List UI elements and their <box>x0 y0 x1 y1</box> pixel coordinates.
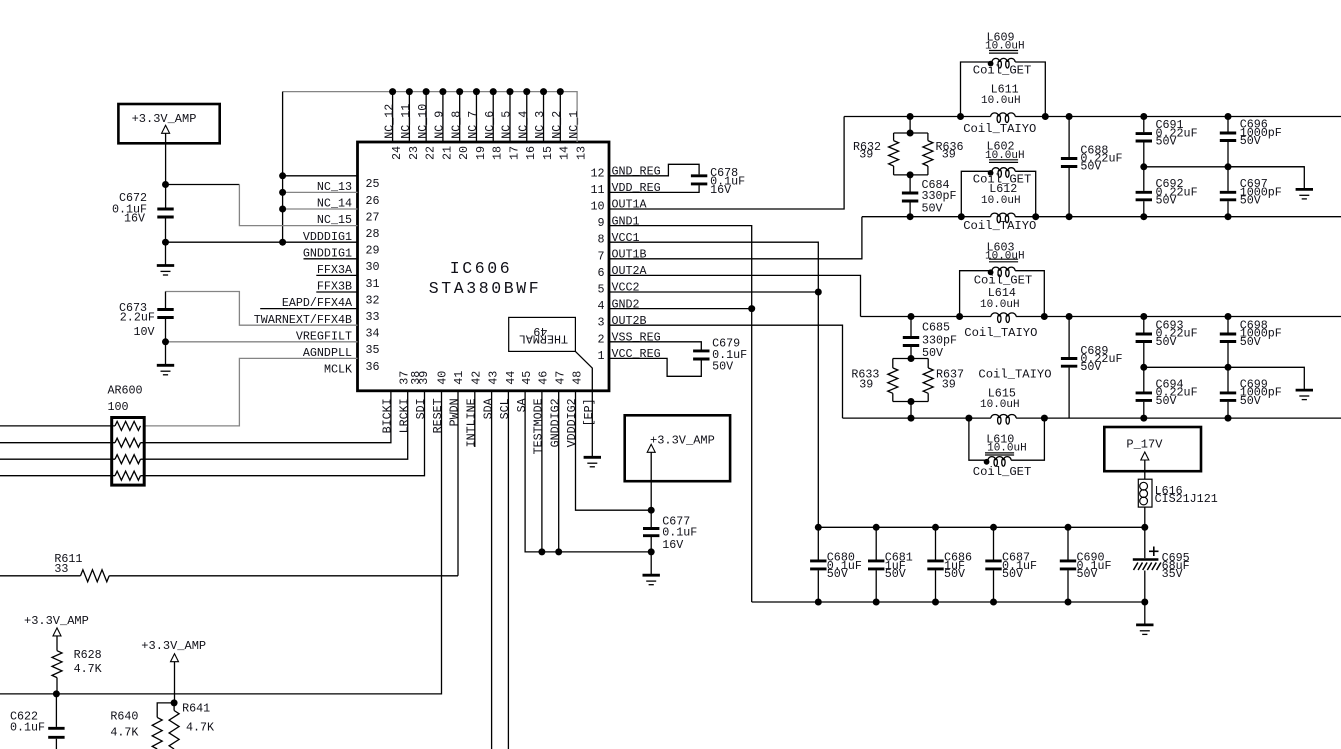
gnd mid wire block2 <box>1144 367 1305 390</box>
ground under C672 <box>157 264 174 267</box>
inductor L612 10.0uH Coil_TAIYO <box>991 213 1016 217</box>
wire to R640/R641 <box>174 662 176 703</box>
svg-text:48: 48 <box>570 371 584 385</box>
ground block2 <box>1296 389 1313 392</box>
svg-text:3: 3 <box>597 316 604 330</box>
AR600 resistor element 3 wire <box>0 458 115 460</box>
svg-text:2.2uF: 2.2uF <box>120 310 155 324</box>
svg-text:33: 33 <box>54 562 68 576</box>
svg-text:17: 17 <box>507 146 521 160</box>
inductor L603 10.0uH Coil_GET loop <box>960 271 992 317</box>
rail OUT1A net <box>844 116 991 118</box>
wire AR600 r3 to LRCKI <box>141 391 408 459</box>
svg-text:+3.3V_AMP: +3.3V_AMP <box>132 112 197 126</box>
svg-text:Coil_TAIYO: Coil_TAIYO <box>963 219 1036 233</box>
pin 12 GND_REG wire to C678 <box>609 164 699 176</box>
pin 41 PWDN wire + resistor R611 33 <box>457 391 459 576</box>
wire C677 to ground <box>650 537 652 575</box>
svg-text:+3.3V_AMP: +3.3V_AMP <box>141 639 206 653</box>
ground under EP <box>584 456 601 459</box>
svg-text:7: 7 <box>597 249 604 263</box>
cap bank top rail (VCC) <box>818 526 1145 528</box>
svg-text:TESTMODE: TESTMODE <box>532 398 546 454</box>
svg-text:Coil_GET: Coil_GET <box>973 465 1032 479</box>
power triangle <box>647 444 655 452</box>
capacitor C698 1000pF 50V / C699 1000pF 50V <box>1225 313 1232 320</box>
svg-text:NC_3: NC_3 <box>533 111 547 139</box>
wire P_17V to L616 <box>1144 460 1146 479</box>
svg-text:39: 39 <box>942 147 956 161</box>
pin 3 OUT2B wire to rail4 <box>609 325 843 418</box>
svg-text:CIS21J121: CIS21J121 <box>1155 492 1218 506</box>
node gnd junction <box>648 548 655 555</box>
resistors R632 R636 39 parallel <box>907 113 914 120</box>
AR600 resistor element 4 wire <box>0 475 115 477</box>
pin 9 GND1 wire down <box>609 226 752 602</box>
svg-text:IC606: IC606 <box>450 259 513 278</box>
inductor L611 10.0uH Coil_TAIYO <box>991 113 1016 117</box>
svg-text:18: 18 <box>491 146 505 160</box>
svg-text:50V: 50V <box>1156 135 1177 149</box>
pin 47 GNDDIG2 wire <box>558 391 560 552</box>
left NC-to-GND bus vertical <box>282 92 284 243</box>
top pin 18 wire NC_6 <box>492 92 494 142</box>
thermal pad box THERMAL 49 <box>509 317 576 351</box>
rail2 net <box>862 216 991 218</box>
svg-text:NC_12: NC_12 <box>382 104 396 139</box>
gnd mid wire block1 <box>1144 166 1305 168</box>
capacitor C695 68uF 35V electrolytic <box>1141 599 1148 606</box>
svg-text:10.0uH: 10.0uH <box>980 299 1020 311</box>
svg-text:39: 39 <box>417 371 431 385</box>
svg-text:NC_10: NC_10 <box>416 104 430 139</box>
svg-text:NC_1: NC_1 <box>567 111 581 139</box>
capacitor C687 0.1uF 50V <box>990 524 997 531</box>
svg-text:19: 19 <box>474 146 488 160</box>
svg-text:42: 42 <box>470 371 484 385</box>
inductor L614 10.0uH Coil_TAIYO <box>991 313 1016 317</box>
wire AR600 r2 to BICKI <box>141 391 391 443</box>
svg-text:10.0uH: 10.0uH <box>985 251 1025 263</box>
svg-text:25: 25 <box>366 177 380 191</box>
node GND2 junction <box>748 305 755 312</box>
svg-text:L614: L614 <box>988 286 1016 300</box>
svg-text:MCLK: MCLK <box>324 363 352 377</box>
svg-text:100: 100 <box>108 400 129 414</box>
svg-text:24: 24 <box>390 146 404 160</box>
EP pad wire to ground <box>591 391 593 458</box>
svg-text:50V: 50V <box>1240 335 1261 349</box>
capacitor C693 0.22uF 50V / C694 0.22uF 50V <box>1140 313 1147 320</box>
svg-text:10.0uH: 10.0uH <box>981 195 1021 207</box>
capacitor C678 0.1uF 16V <box>691 174 707 177</box>
power box +3.3V_AMP top-left <box>118 104 219 143</box>
top pin 17 wire NC_5 <box>509 92 511 142</box>
svg-text:50V: 50V <box>922 202 943 216</box>
svg-text:R628: R628 <box>74 648 102 662</box>
svg-text:30: 30 <box>366 260 380 274</box>
capacitor C680 0.1uF 50V <box>815 524 822 531</box>
top pin 22 wire NC_10 <box>425 92 427 142</box>
svg-text:50V: 50V <box>1080 160 1101 174</box>
inductor L615 10.0uH Coil_TAIYO <box>991 415 1016 419</box>
svg-text:NC_4: NC_4 <box>516 111 530 139</box>
svg-text:40: 40 <box>435 371 449 385</box>
svg-text:26: 26 <box>366 194 380 208</box>
svg-text:R640: R640 <box>110 710 138 724</box>
svg-text:P_17V: P_17V <box>1126 438 1163 452</box>
AR600 resistor element 1 wire <box>0 425 115 427</box>
svg-text:46: 46 <box>537 371 551 385</box>
pin 42 INTLINE stub <box>474 391 476 447</box>
svg-text:39: 39 <box>859 147 873 161</box>
svg-text:27: 27 <box>366 210 380 224</box>
svg-text:35V: 35V <box>1162 567 1183 581</box>
svg-text:33: 33 <box>366 310 380 324</box>
wire AR600 r4 to SDI <box>141 391 425 476</box>
wire +3.3V to C677 <box>650 452 652 527</box>
top pin 15 wire NC_3 <box>543 92 545 142</box>
svg-text:VDDDIG2: VDDDIG2 <box>565 398 579 447</box>
IC U606 body STA380BWF <box>358 142 610 391</box>
resistors R633 R637 39 parallel <box>893 358 928 360</box>
svg-text:10V: 10V <box>134 325 155 339</box>
svg-text:Coil_GET: Coil_GET <box>974 273 1033 287</box>
capacitor C672 0.1uF 16V <box>157 208 173 211</box>
svg-text:BICKI: BICKI <box>381 398 395 433</box>
top pin 19 wire NC_7 <box>475 92 477 142</box>
capacitor C691 0.22uF 50V / C692 0.22uF 50V <box>1140 113 1147 120</box>
svg-text:39: 39 <box>859 377 873 391</box>
svg-text:16: 16 <box>524 146 538 160</box>
svg-text:50V: 50V <box>1240 394 1261 408</box>
svg-text:10: 10 <box>590 200 604 214</box>
svg-text:C685: C685 <box>922 320 950 334</box>
capacitor C696 1000pF 50V / C697 1000pF 50V <box>1225 113 1232 120</box>
pin 35 AGNDPLL wire from C673 gnd <box>166 341 358 343</box>
pin 8 VCC1 wire down <box>609 242 818 527</box>
wire C673 to ground <box>165 319 167 365</box>
svg-text:34: 34 <box>366 327 380 341</box>
capacitor C684 330pF 50V <box>909 175 911 192</box>
svg-text:4.7K: 4.7K <box>186 721 214 735</box>
node VCC2 junction <box>815 289 822 296</box>
node GNDDIG1 junction <box>162 239 169 246</box>
svg-text:INTLINE: INTLINE <box>465 398 479 447</box>
svg-text:32: 32 <box>366 293 380 307</box>
svg-text:NC_6: NC_6 <box>483 111 497 139</box>
wire +3.3V to C672 <box>165 133 167 207</box>
svg-text:28: 28 <box>366 227 380 241</box>
top pin 24 wire NC_12 <box>392 92 394 142</box>
power box +3.3V_AMP (C677) <box>625 415 730 481</box>
capacitor C685 330pF 50V <box>908 313 915 320</box>
capacitor C679 0.1uF 50V <box>693 349 709 352</box>
wire C672 to ground <box>165 218 167 265</box>
svg-text:50V: 50V <box>827 567 848 581</box>
svg-text:+3.3V_AMP: +3.3V_AMP <box>650 433 715 447</box>
pin 36 MCLK wire from AR600 <box>144 358 357 426</box>
svg-text:SA: SA <box>515 397 529 412</box>
capacitor C677 0.1uF 16V <box>643 527 659 530</box>
svg-text:10.0uH: 10.0uH <box>985 41 1025 53</box>
NC bus wire (top) <box>283 92 577 142</box>
svg-text:31: 31 <box>366 277 380 291</box>
rail3 net <box>861 316 991 318</box>
svg-text:10.0uH: 10.0uH <box>980 399 1020 411</box>
svg-text:39: 39 <box>942 377 956 391</box>
capacitor C686 1uF 50V <box>932 524 939 531</box>
cap bank bottom rail (GND) <box>752 601 1145 603</box>
inductor L610 10.0uH Coil_GET loop <box>969 418 988 460</box>
svg-text:50V: 50V <box>1240 134 1261 148</box>
svg-text:SCL: SCL <box>498 398 512 419</box>
svg-text:SDA: SDA <box>481 397 495 419</box>
capacitor C681 1uF 50V <box>873 524 880 531</box>
node RESET junction <box>53 690 60 697</box>
svg-text:50V: 50V <box>712 359 733 373</box>
svg-text:16V: 16V <box>662 538 683 552</box>
pin 4 GND2 wire <box>609 308 752 310</box>
inductor L616 CIS21J121 <box>1138 479 1152 507</box>
pin 44 SCL wire <box>507 391 509 749</box>
power box P_17V <box>1104 427 1201 471</box>
pin 46 TESTMODE wire <box>541 391 543 552</box>
svg-text:21: 21 <box>440 146 454 160</box>
pin 2 VSS_REG wire to C679 <box>609 342 701 350</box>
capacitor C673 2.2uF 10V <box>165 292 167 309</box>
svg-text:Coil_TAIYO: Coil_TAIYO <box>964 326 1037 340</box>
capacitor C689 0.22uF 50V <box>1066 313 1073 320</box>
svg-text:[EP]: [EP] <box>582 398 596 426</box>
svg-text:4.7K: 4.7K <box>110 726 138 740</box>
ground under C695 <box>1136 624 1153 627</box>
svg-text:44: 44 <box>504 371 518 385</box>
svg-text:16V: 16V <box>710 183 731 197</box>
svg-text:20: 20 <box>457 146 471 160</box>
top pin 16 wire NC_4 <box>526 92 528 142</box>
svg-text:50V: 50V <box>1077 567 1098 581</box>
svg-text:NC_8: NC_8 <box>449 111 463 139</box>
svg-text:PWDN: PWDN <box>448 398 462 426</box>
pin 40 RESET wire <box>0 391 442 694</box>
svg-text:+3.3V_AMP: +3.3V_AMP <box>24 614 89 628</box>
ground under C677 <box>643 574 660 577</box>
svg-text:45: 45 <box>520 371 534 385</box>
capacitor C622 0.1uF <box>55 694 57 727</box>
svg-text:11: 11 <box>590 183 604 197</box>
top pin 14 wire NC_2 <box>559 92 561 142</box>
pin 25 NC_13 wire <box>283 175 358 177</box>
svg-text:Coil_GET: Coil_GET <box>973 173 1032 187</box>
svg-text:50V: 50V <box>1240 194 1261 208</box>
pin 1 VCC_REG wire <box>609 358 701 376</box>
pin 27 NC_15 wire <box>283 208 358 210</box>
pin 34 VREGFILT wire from C673 <box>166 292 358 326</box>
svg-text:23: 23 <box>407 146 421 160</box>
pin 32 EAPD/FFX4A stub <box>316 291 357 293</box>
top pin 23 wire NC_11 <box>408 92 410 142</box>
pin 28 VDDDIG1 wire from +3.3V node <box>166 184 240 186</box>
svg-text:Coil_TAIYO: Coil_TAIYO <box>963 122 1036 136</box>
pin 45 SA wire to gnd node <box>525 391 651 552</box>
power triangle <box>162 125 170 133</box>
svg-text:1: 1 <box>597 349 604 363</box>
svg-text:41: 41 <box>452 371 466 385</box>
rail4 net <box>843 417 991 419</box>
svg-text:12: 12 <box>590 166 604 180</box>
svg-text:GNDDIG2: GNDDIG2 <box>548 398 562 447</box>
svg-text:36: 36 <box>366 360 380 374</box>
pin 26 NC_14 wire <box>283 191 358 193</box>
ground block1 <box>1296 188 1313 191</box>
svg-text:10.0uH: 10.0uH <box>985 150 1025 162</box>
top pin 20 wire NC_8 <box>459 92 461 142</box>
resistor R641 4.7K <box>173 703 175 711</box>
svg-text:8: 8 <box>597 233 604 247</box>
pin 43 SDA wire <box>491 391 493 749</box>
svg-text:50V: 50V <box>1156 394 1177 408</box>
svg-text:50V: 50V <box>1156 335 1177 349</box>
inductor L609 10.0uH Coil_GET loop <box>961 62 993 117</box>
svg-text:6: 6 <box>597 266 604 280</box>
svg-text:47: 47 <box>554 371 568 385</box>
svg-text:STA380BWF: STA380BWF <box>429 279 542 298</box>
svg-text:AR600: AR600 <box>108 384 143 398</box>
svg-text:2: 2 <box>597 332 604 346</box>
node AGNDPLL junction <box>162 338 169 345</box>
svg-text:35: 35 <box>366 343 380 357</box>
svg-text:SDI: SDI <box>414 398 428 419</box>
svg-text:9: 9 <box>597 216 604 230</box>
inductor L602 10.0uH Coil_GET loop <box>961 171 992 216</box>
ground under C673 <box>157 364 174 367</box>
pin 7 OUT1B wire to rail2 <box>609 217 862 259</box>
svg-text:NC_11: NC_11 <box>399 104 413 139</box>
pin 11 VDD_REG wire <box>609 185 699 192</box>
svg-text:LRCKI: LRCKI <box>397 398 411 433</box>
node +3.3V_AMP junction <box>162 181 169 188</box>
svg-text:R641: R641 <box>182 702 210 716</box>
svg-text:NC_5: NC_5 <box>500 111 514 139</box>
pin 48 VDDDIG2 wire <box>576 391 652 510</box>
svg-text:4.7K: 4.7K <box>74 662 102 676</box>
svg-text:50V: 50V <box>1080 360 1101 374</box>
AR600 resistor element 2 wire <box>0 442 115 444</box>
svg-text:NC_2: NC_2 <box>550 111 564 139</box>
svg-text:16V: 16V <box>124 212 145 226</box>
wire L616 to cap bank <box>1144 507 1146 558</box>
svg-text:NC_7: NC_7 <box>466 111 480 139</box>
svg-text:NC_9: NC_9 <box>433 111 447 139</box>
svg-text:Coil_GET: Coil_GET <box>973 63 1032 77</box>
svg-text:22: 22 <box>424 146 438 160</box>
svg-text:THERMAL: THERMAL <box>519 332 568 346</box>
svg-text:0.1uF: 0.1uF <box>10 720 45 734</box>
power triangle P_17V <box>1141 452 1149 460</box>
svg-text:10.0uH: 10.0uH <box>981 95 1021 107</box>
pin 29 GNDDIG1 wire from C672 <box>166 241 358 243</box>
pin 30 FFX3A stub <box>304 258 358 260</box>
svg-text:50V: 50V <box>1156 194 1177 208</box>
svg-text:RESET: RESET <box>431 398 445 433</box>
resistor R628 4.7K <box>56 636 58 651</box>
pin 33 TWARNEXT/FFX4B stub <box>260 308 357 310</box>
capacitor C688 0.22uF 50V <box>1066 113 1073 120</box>
pin 31 FFX3B stub <box>316 274 357 276</box>
svg-text:Coil_TAIYO: Coil_TAIYO <box>978 367 1051 381</box>
svg-text:15: 15 <box>541 146 555 160</box>
svg-text:29: 29 <box>366 244 380 258</box>
capacitor C690 0.1uF 50V <box>1065 524 1072 531</box>
node VDDDIG2 junction <box>648 507 655 514</box>
svg-text:50V: 50V <box>1002 567 1023 581</box>
pin 6 OUT2A wire to rail3 <box>609 275 861 316</box>
resistor R640 4.7K <box>157 703 174 718</box>
top pin 21 wire NC_9 <box>442 92 444 142</box>
svg-text:50V: 50V <box>885 567 906 581</box>
thermal pad diagonal to EP pin <box>575 351 592 390</box>
svg-text:14: 14 <box>558 146 572 160</box>
pin 5 VCC2 wire <box>609 291 818 293</box>
svg-text:10.0uH: 10.0uH <box>987 443 1027 455</box>
svg-text:4: 4 <box>597 299 604 313</box>
svg-text:50V: 50V <box>944 567 965 581</box>
svg-text:43: 43 <box>486 371 500 385</box>
svg-text:13: 13 <box>574 146 588 160</box>
pin 10 OUT1A wire to rail1 <box>609 117 844 210</box>
svg-text:5: 5 <box>597 283 604 297</box>
